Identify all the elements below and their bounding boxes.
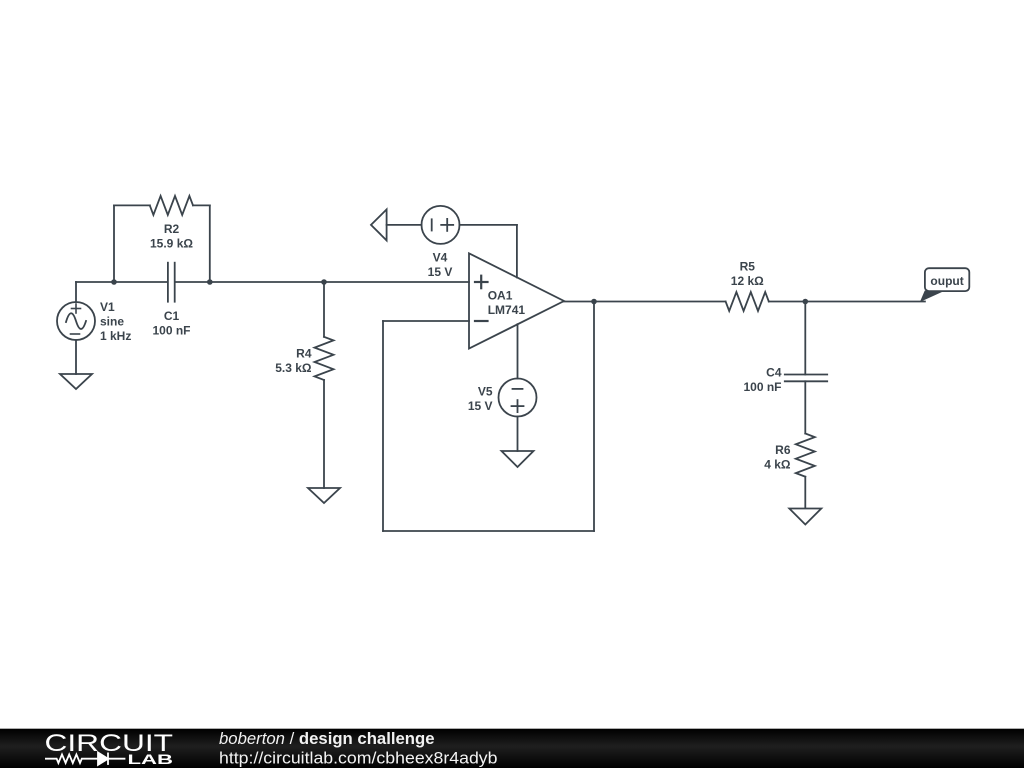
- svg-text:100 nF: 100 nF: [743, 380, 781, 394]
- ground below R6: [789, 509, 821, 525]
- resistor R2: [150, 196, 193, 215]
- R2 value label: [150, 222, 193, 251]
- wire V1 to ground: [75, 340, 77, 374]
- OA1 name label: [488, 289, 526, 318]
- footer bar: [0, 729, 1024, 768]
- resistor R4: [315, 337, 334, 380]
- svg-text:V1: V1: [100, 300, 115, 314]
- wire ground to V4: [387, 224, 422, 226]
- svg-text:LM741: LM741: [488, 303, 526, 317]
- svg-text:1 kHz: 1 kHz: [100, 329, 131, 343]
- wire R4 bottom: [323, 380, 325, 488]
- wire R2 branch left vertical: [113, 205, 115, 282]
- voltage source V1 sine: [57, 302, 95, 340]
- svg-text:4 kΩ: 4 kΩ: [764, 457, 791, 471]
- ground below V5: [502, 451, 534, 467]
- voltage source V5: [499, 379, 537, 417]
- C4 value label: [743, 365, 781, 394]
- logo resistor and diode symbol: [45, 753, 125, 765]
- node junction at output feedback: [591, 299, 597, 305]
- V5 value label: [468, 385, 493, 414]
- svg-text:sine: sine: [100, 315, 124, 329]
- R4 value label: [275, 347, 312, 376]
- wire junction to C4: [804, 302, 806, 375]
- node junction at R4 top: [321, 279, 327, 285]
- svg-text:5.3 kΩ: 5.3 kΩ: [275, 361, 312, 375]
- svg-text:C4: C4: [766, 365, 782, 379]
- svg-text:R4: R4: [296, 347, 312, 361]
- wire op-amp output: [564, 301, 726, 303]
- node flag ouput: [920, 268, 969, 302]
- svg-text:LAB: LAB: [128, 752, 174, 767]
- wire feedback from inverting input: [383, 302, 594, 532]
- V1 value label: [100, 300, 131, 343]
- wire R2 branch right vertical: [209, 205, 211, 282]
- svg-text:OA1: OA1: [488, 289, 513, 303]
- wire R5 to output flag: [769, 301, 925, 303]
- node junction at R5/C4: [803, 299, 809, 305]
- resistor R5: [726, 292, 769, 311]
- svg-text:R2: R2: [164, 222, 180, 236]
- wire R2 top right: [193, 204, 210, 206]
- resistor R6: [796, 434, 815, 477]
- svg-text:15 V: 15 V: [428, 265, 453, 279]
- svg-text:15 V: 15 V: [468, 399, 493, 413]
- node junction at R2/C1 left: [111, 279, 117, 285]
- svg-text:V4: V4: [433, 250, 448, 264]
- R6 value label: [764, 443, 791, 472]
- svg-text:100 nF: 100 nF: [152, 323, 190, 337]
- C1 value label: [152, 309, 190, 338]
- svg-text:ouput: ouput: [930, 274, 963, 288]
- wire R4 top: [323, 282, 325, 337]
- op-amp OA1 LM741: [469, 253, 564, 348]
- wire R2 top left: [114, 204, 150, 206]
- wire V4 to op-amp V+: [460, 225, 517, 278]
- svg-text:V5: V5: [478, 385, 493, 399]
- svg-text:12 kΩ: 12 kΩ: [731, 274, 764, 288]
- svg-text:boberton / design challenge: boberton / design challenge: [219, 730, 435, 748]
- R5 value label: [731, 259, 764, 288]
- svg-text:http://circuitlab.com/cbheex8r: http://circuitlab.com/cbheex8r4adyb: [219, 749, 498, 767]
- svg-text:15.9 kΩ: 15.9 kΩ: [150, 236, 193, 250]
- svg-text:R5: R5: [740, 259, 756, 273]
- wire V5 to ground: [517, 417, 519, 452]
- ground left of V4: [371, 209, 387, 240]
- svg-text:C1: C1: [164, 309, 180, 323]
- ground below R4: [308, 488, 340, 503]
- wire C4 to R6: [804, 381, 806, 433]
- svg-text:R6: R6: [775, 443, 791, 457]
- capacitor C4: [785, 375, 827, 382]
- voltage source V4: [422, 206, 460, 244]
- capacitor C1: [168, 263, 175, 302]
- ground below V1: [60, 374, 92, 389]
- wire main net from V1 to op-amp non-inverting input: [76, 282, 469, 302]
- wire R6 to ground: [804, 477, 806, 508]
- V4 value label: [428, 250, 453, 279]
- node junction at R2/C1 right: [207, 279, 213, 285]
- wire op-amp V- to V5: [517, 324, 519, 378]
